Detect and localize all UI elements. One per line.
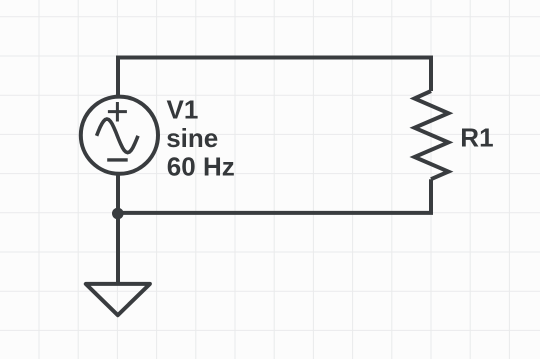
svg-text:sine: sine <box>166 123 218 153</box>
wire: top rail from V1 top to R1 top <box>118 58 431 97</box>
svg-text:R1: R1 <box>460 123 493 153</box>
node: junction dot at V1 bottom / ground tap <box>112 208 124 220</box>
ground symbol <box>86 284 150 315</box>
wire: bottom rail from V1 bottom to R1 bottom <box>118 175 431 213</box>
svg-text:60 Hz: 60 Hz <box>167 152 235 182</box>
label R1 <box>460 123 493 153</box>
wire: ground lead down from junction <box>116 213 120 284</box>
voltage source V1 (sine source) <box>81 97 158 174</box>
svg-text:V1: V1 <box>167 95 199 125</box>
resistor R1 (zigzag) <box>415 91 449 179</box>
label V1 value text: V1 / sine / 60 Hz <box>166 95 235 182</box>
